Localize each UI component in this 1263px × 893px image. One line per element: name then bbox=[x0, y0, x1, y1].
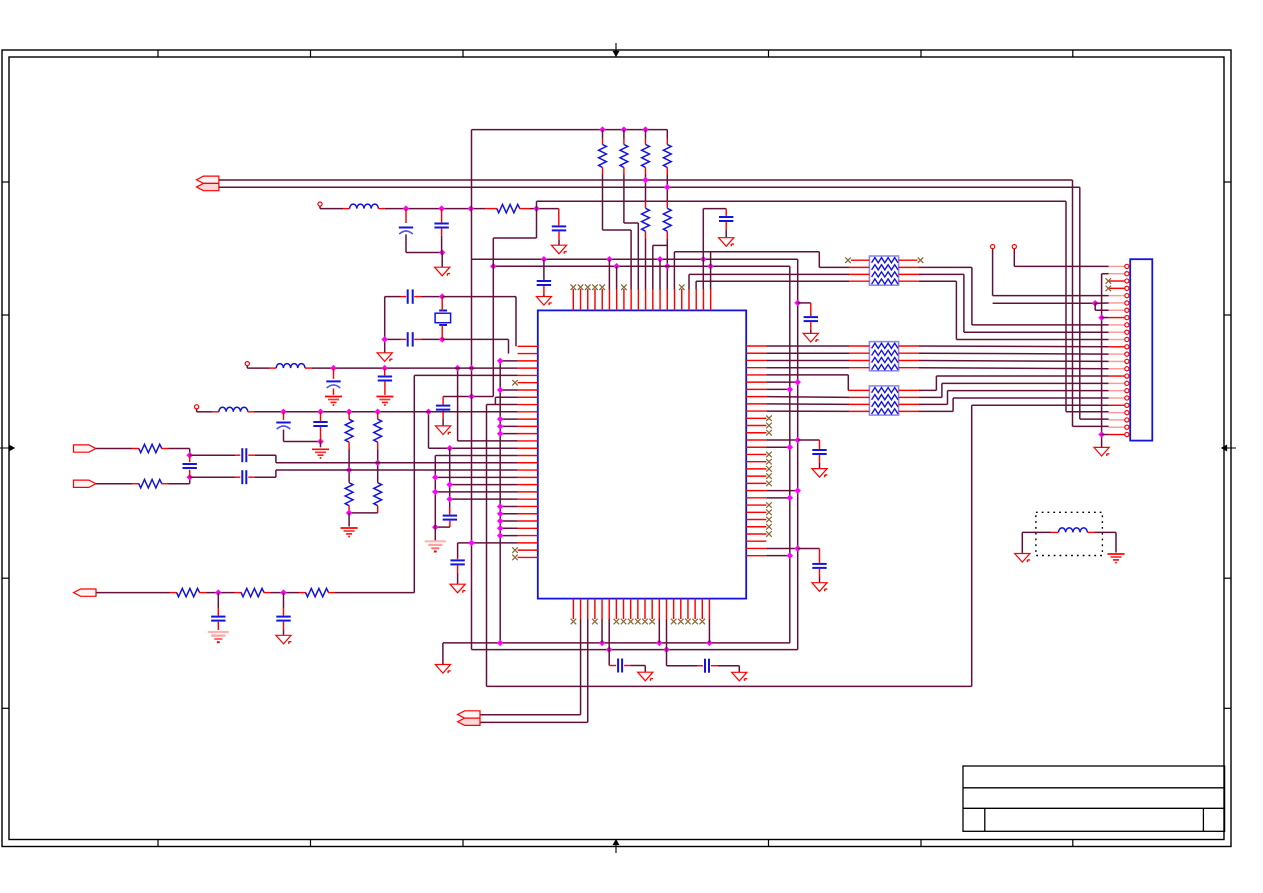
pin of R6 bbox=[645, 201, 647, 208]
wire stub up bbox=[536, 201, 538, 208]
junction bbox=[541, 256, 548, 263]
wire to port P5 bbox=[480, 714, 581, 716]
wire R5 column bbox=[666, 175, 668, 202]
junction bbox=[215, 589, 222, 596]
junction bbox=[1098, 431, 1105, 438]
pin of Y1 bbox=[441, 297, 443, 311]
IC U1 bottom pin 8 bbox=[623, 599, 625, 619]
wire stub pin k19 bbox=[450, 484, 518, 486]
junction bbox=[346, 467, 353, 474]
IC U1 top pin 12 bbox=[652, 289, 654, 310]
wire bbox=[919, 396, 942, 398]
capacitor C17 bbox=[183, 464, 197, 468]
pin of C6 bbox=[401, 296, 407, 298]
no-connect bbox=[699, 619, 705, 625]
IC U1 left pin 27 bbox=[518, 535, 538, 537]
IC U1 top pin 9 bbox=[630, 289, 632, 310]
IC U1 bottom pin 6 bbox=[608, 599, 610, 619]
junction bbox=[454, 365, 461, 372]
terminal T1 bbox=[318, 202, 322, 206]
pin FB2.4 bbox=[849, 367, 869, 369]
pin of C10 bbox=[457, 558, 459, 560]
wire net A riser down bbox=[1072, 180, 1074, 426]
pin of R4 bbox=[645, 167, 647, 174]
wire bbox=[992, 249, 994, 296]
resistor R16 bbox=[306, 588, 329, 596]
filter network FB1 bbox=[869, 256, 898, 285]
IC U1 top pin 19 bbox=[702, 289, 704, 310]
wire to IC pin bbox=[652, 245, 654, 289]
IC U1 bottom pin 3 bbox=[587, 599, 589, 619]
wire from IC pin bbox=[766, 410, 849, 412]
IC U1 left pin 12 bbox=[518, 425, 538, 427]
pin of C9 bbox=[449, 521, 451, 527]
wire bbox=[631, 665, 645, 667]
connector J1 pin 1 bbox=[1109, 265, 1125, 267]
pin of R8 bbox=[348, 412, 350, 419]
connector J1 pin 24 bbox=[1109, 434, 1125, 436]
pin of R14 bbox=[199, 592, 206, 594]
IC U1 right pin 8 bbox=[746, 396, 766, 398]
connector J1 pin 2 bbox=[1109, 273, 1125, 275]
junction bbox=[468, 393, 475, 400]
capacitor C14 bbox=[313, 422, 327, 426]
connector J1 pin 20 circle bbox=[1125, 403, 1129, 407]
wire bbox=[644, 666, 646, 673]
wire to connector bbox=[948, 390, 1109, 392]
pin of R11 bbox=[377, 506, 379, 513]
wire bbox=[810, 330, 812, 333]
wire bbox=[819, 577, 821, 583]
wire to ground bbox=[441, 253, 443, 268]
pin of C7 bbox=[414, 338, 421, 340]
IC U1 left pin 24 bbox=[518, 513, 538, 515]
connector J1 pin 5 circle bbox=[1125, 294, 1129, 298]
IC U1 right pin 28 bbox=[746, 540, 766, 542]
wire down bbox=[536, 209, 538, 238]
connector J1 pin 7 circle bbox=[1125, 308, 1129, 312]
wire vertical bbox=[449, 448, 451, 512]
IC U1 left pin 6 bbox=[518, 382, 538, 384]
capacitor C10 bbox=[450, 560, 464, 564]
junction bbox=[497, 518, 504, 525]
wire pin stub bbox=[766, 555, 789, 557]
wire bbox=[385, 338, 401, 340]
ground bbox=[376, 397, 393, 406]
pin of C19 bbox=[283, 622, 285, 630]
capacitor C6 bbox=[408, 289, 413, 303]
pin of C11 bbox=[333, 368, 335, 379]
ground bbox=[1094, 447, 1109, 456]
left center marker arrow bbox=[0, 445, 14, 450]
wire net C long bbox=[537, 200, 1067, 202]
crystal Y1 bbox=[435, 311, 451, 326]
pin of C17 bbox=[189, 470, 191, 477]
pin of C13 bbox=[283, 412, 285, 420]
junction bbox=[446, 445, 453, 452]
junction bbox=[606, 256, 613, 263]
wire bbox=[96, 448, 132, 450]
pin of R1 bbox=[519, 208, 530, 210]
wire net C riser down bbox=[1065, 201, 1067, 411]
filter network FB2 bbox=[869, 342, 898, 371]
junction bbox=[381, 365, 388, 372]
IC U1 left pin 7 bbox=[518, 389, 538, 391]
ground bbox=[803, 333, 818, 342]
wire riser to IC pin bbox=[659, 259, 661, 289]
wire riser to IC pin bbox=[710, 252, 712, 290]
wire riser to IC pin bbox=[688, 274, 690, 289]
wire bus stub to pin bbox=[500, 520, 517, 522]
connector J1 pin 12 bbox=[1109, 346, 1125, 348]
IC U1 right pin 3 bbox=[746, 359, 766, 361]
pin of R5 bbox=[666, 167, 668, 174]
connector J1 pin 1 circle bbox=[1125, 264, 1129, 268]
wire pin riser bbox=[658, 619, 660, 643]
IC U1 top pin 15 bbox=[674, 289, 676, 310]
wire row2 to IC pin k3 bbox=[312, 367, 518, 369]
wire bbox=[348, 450, 350, 483]
port P1 upper arrow bbox=[197, 176, 219, 183]
capacitor C12 bbox=[378, 377, 392, 381]
wire bbox=[406, 252, 442, 254]
connector J1 pin 18 circle bbox=[1125, 389, 1129, 393]
IC U1 top pin 11 bbox=[645, 289, 647, 310]
IC U1 bottom pin 17 bbox=[687, 599, 689, 619]
capacitor C8 bbox=[436, 406, 450, 410]
no-connect bbox=[649, 619, 655, 625]
wire bus stub to pin bbox=[500, 360, 517, 362]
wire bbox=[349, 512, 378, 514]
pin FB3.6 bbox=[899, 403, 919, 405]
IC U1 left pin 19 bbox=[518, 476, 538, 478]
wire to connector bbox=[919, 360, 1109, 363]
capacitor C22 bbox=[804, 317, 818, 321]
wire bbox=[1021, 532, 1023, 553]
wire bbox=[441, 236, 443, 253]
wire bbox=[96, 483, 132, 485]
IC U1 right pin 29 bbox=[746, 547, 766, 549]
pin of R1 bbox=[486, 208, 498, 210]
no-connect bbox=[599, 284, 605, 290]
pin of C7 bbox=[401, 338, 407, 340]
port P3 bbox=[74, 480, 96, 487]
IC U1 right pin 10 bbox=[746, 410, 766, 412]
wire pin stub bbox=[766, 547, 797, 549]
wire bbox=[283, 630, 285, 635]
wire crystal top bbox=[442, 296, 516, 298]
border zone tick bbox=[2, 314, 9, 316]
pin of R5 bbox=[666, 139, 668, 145]
capacitor C20 bbox=[618, 659, 622, 673]
junction bbox=[490, 263, 497, 270]
junction bbox=[432, 489, 439, 496]
wire to pin k4 bbox=[414, 374, 517, 376]
wire bbox=[377, 450, 379, 483]
ground bbox=[436, 426, 451, 435]
ground bbox=[812, 583, 827, 592]
wire chain to riser bbox=[335, 592, 414, 594]
pin FB3.5 bbox=[899, 410, 919, 412]
pin of R13 bbox=[132, 483, 139, 485]
pin FB3.4 bbox=[849, 410, 869, 412]
no-connect bbox=[585, 284, 591, 290]
pin of R11 bbox=[377, 481, 379, 484]
connector J1 pin 8 bbox=[1109, 317, 1125, 319]
inductor L1 bbox=[350, 204, 379, 209]
junction bbox=[794, 437, 801, 444]
pin of C16 bbox=[248, 476, 255, 478]
resistor R8 bbox=[345, 419, 353, 442]
IC U1 right pin 18 bbox=[746, 468, 766, 470]
no-connect bbox=[766, 423, 772, 429]
IC U1 right pin 9 bbox=[746, 403, 766, 405]
junction bbox=[794, 545, 801, 552]
wire net W2 bbox=[472, 649, 798, 651]
pin of C21 bbox=[697, 665, 703, 667]
junction bbox=[787, 552, 794, 559]
pin of C15 bbox=[248, 454, 255, 456]
pin of C16 bbox=[235, 476, 240, 478]
IC U1 left pin 25 bbox=[518, 520, 538, 522]
border zone tick bbox=[1224, 577, 1231, 579]
wire vertical bus bbox=[492, 238, 494, 397]
inductor L2 bbox=[276, 364, 305, 369]
wire bbox=[798, 439, 820, 441]
wire to connector pin 20 bbox=[972, 404, 1109, 406]
inductor L3 bbox=[219, 407, 248, 412]
wire pin riser bbox=[708, 619, 710, 643]
junction bbox=[446, 496, 453, 503]
connector J1 pin 19 bbox=[1109, 397, 1125, 399]
wire riser bbox=[971, 267, 973, 324]
IC U1 top pin 2 bbox=[580, 289, 582, 310]
ground bbox=[551, 245, 566, 254]
wire pin stub bbox=[766, 388, 789, 390]
ground bbox=[719, 238, 734, 247]
IC U1 right pin 11 bbox=[746, 417, 766, 419]
connector J1 pin 7 bbox=[1109, 309, 1125, 311]
border zone tick bbox=[462, 840, 464, 847]
wire to pin k13 bbox=[458, 440, 518, 442]
pin of R3 bbox=[623, 167, 625, 174]
junction bbox=[787, 444, 794, 451]
capacitor C16 bbox=[242, 470, 246, 484]
wire bbox=[422, 296, 443, 298]
wire bbox=[169, 483, 190, 485]
wire bbox=[96, 592, 170, 594]
IC U1 left pin 16 bbox=[518, 455, 538, 457]
IC U1 bottom pin 9 bbox=[630, 599, 632, 619]
IC U1 right pin 26 bbox=[746, 526, 766, 528]
wire from IC pin bbox=[766, 396, 849, 399]
pin of C24 bbox=[819, 569, 821, 577]
wire net D bbox=[472, 258, 798, 260]
no-connect bbox=[1106, 278, 1112, 284]
wire net A to connector pin 23 bbox=[1073, 425, 1109, 427]
IC U1 left pin 10 bbox=[518, 411, 538, 413]
junction bbox=[439, 249, 446, 256]
wire riser to IC pin bbox=[616, 266, 618, 289]
wire pin stub bbox=[766, 497, 789, 499]
junction bbox=[787, 386, 794, 393]
connector J1 pin 9 circle bbox=[1125, 323, 1129, 327]
wire to connector pin 5 bbox=[993, 295, 1109, 297]
no-connect bbox=[679, 284, 685, 290]
border zone tick bbox=[1224, 707, 1231, 709]
wire riser to IC pin bbox=[508, 339, 510, 353]
wire crystal left leg bbox=[384, 297, 386, 353]
wire top rail bbox=[472, 129, 668, 131]
wire to connector pin 2 bbox=[1102, 273, 1109, 275]
pin FB3.7 bbox=[899, 396, 919, 398]
wire bbox=[645, 130, 647, 139]
wire riser bbox=[935, 376, 937, 390]
IC U1 left pin 8 bbox=[518, 396, 538, 398]
pin of C12 bbox=[384, 368, 386, 375]
IC U1 right pin 27 bbox=[746, 533, 766, 535]
junction bbox=[497, 525, 504, 532]
wire from IC pin bbox=[766, 345, 849, 347]
border zone tick bbox=[2, 577, 9, 579]
IC U1 right pin 6 bbox=[746, 381, 766, 383]
no-connect bbox=[766, 459, 772, 465]
wire bbox=[348, 513, 350, 527]
junction bbox=[794, 379, 801, 386]
resistor R10 bbox=[345, 483, 353, 506]
pin of R3 bbox=[623, 139, 625, 145]
pin of R12 bbox=[132, 448, 139, 450]
connector J1 pin 6 circle bbox=[1125, 301, 1129, 305]
wire bbox=[543, 294, 545, 297]
no-connect bbox=[671, 619, 677, 625]
no-connect bbox=[621, 284, 627, 290]
IC U1 bbox=[538, 310, 746, 598]
wire pin to port bbox=[580, 619, 582, 715]
wire net B to right bbox=[219, 186, 1080, 188]
IC U1 right pin 12 bbox=[746, 425, 766, 427]
resistor R7 bbox=[663, 208, 671, 231]
ground bbox=[312, 449, 329, 458]
wire bbox=[919, 280, 956, 282]
resistor R15 bbox=[241, 588, 264, 596]
wire bbox=[666, 130, 668, 139]
pin of R2 bbox=[602, 167, 604, 174]
connector J1 pin 16 bbox=[1109, 375, 1125, 377]
polarized capacitor C1 bbox=[399, 228, 413, 235]
IC U1 left pin 20 bbox=[518, 484, 538, 486]
junction bbox=[446, 481, 453, 488]
pin FB2.5 bbox=[899, 367, 919, 369]
IC U1 left pin 1 bbox=[518, 345, 538, 347]
junction bbox=[186, 452, 193, 459]
connector J1 pin 10 bbox=[1109, 331, 1125, 333]
ground bbox=[276, 635, 291, 644]
connector J1 pin 21 circle bbox=[1125, 411, 1129, 415]
IC U1 bottom pin 15 bbox=[673, 599, 675, 619]
junction bbox=[664, 263, 671, 270]
wire pin k7 bbox=[495, 396, 517, 398]
wire riser bbox=[847, 375, 849, 390]
junction bbox=[317, 409, 324, 416]
pin of R16 bbox=[328, 592, 335, 594]
IC U1 top pin 20 bbox=[710, 289, 712, 310]
no-connect bbox=[621, 619, 627, 625]
connector J1 pin 22 circle bbox=[1125, 418, 1129, 422]
junction bbox=[664, 184, 671, 191]
ground bbox=[325, 397, 342, 406]
wire bbox=[217, 593, 219, 608]
wire to connector bbox=[919, 345, 1109, 348]
wire from IC pin bbox=[766, 367, 849, 369]
wire bus stub to pin bbox=[500, 535, 517, 537]
pin of L3 bbox=[212, 411, 219, 413]
IC U1 bottom pin 10 bbox=[637, 599, 639, 619]
pin FB3.1 bbox=[849, 389, 869, 391]
junction bbox=[497, 510, 504, 517]
pin of R7 bbox=[666, 231, 668, 238]
wire bbox=[246, 366, 248, 368]
wire pin riser bbox=[608, 619, 610, 666]
pin FB2.3 bbox=[849, 360, 869, 362]
wire bbox=[206, 592, 235, 594]
wire bus stub to pin bbox=[500, 527, 517, 529]
IC U1 left pin 22 bbox=[518, 498, 538, 500]
wire bbox=[919, 266, 972, 268]
IC U1 right pin 13 bbox=[746, 432, 766, 434]
wire to connector bbox=[942, 382, 1109, 384]
pin of R15 bbox=[264, 592, 271, 594]
wire bbox=[543, 259, 545, 280]
IC U1 bottom pin 11 bbox=[644, 599, 646, 619]
capacitor C9 bbox=[443, 516, 457, 520]
connector J1 pin 18 bbox=[1109, 390, 1125, 392]
junction bbox=[606, 646, 613, 653]
border zone tick bbox=[310, 50, 312, 57]
IC U1 left pin 23 bbox=[518, 505, 538, 507]
polarized capacitor C13 bbox=[276, 423, 290, 430]
filter network FB3 bbox=[869, 386, 898, 415]
connector J1 pin 20 bbox=[1109, 404, 1125, 406]
pin of R9 bbox=[377, 412, 379, 419]
capacitor C19 bbox=[276, 617, 290, 621]
pin of C20 bbox=[609, 665, 616, 667]
junction bbox=[497, 423, 504, 430]
no-connect bbox=[766, 481, 772, 487]
pin of C8 bbox=[442, 411, 444, 419]
pin of R12 bbox=[161, 448, 168, 450]
pin FB1.3 bbox=[849, 273, 869, 275]
wire vertical bbox=[457, 368, 459, 441]
wire pin stub bbox=[766, 439, 797, 441]
junction bbox=[642, 177, 649, 184]
wire pin stub bbox=[766, 490, 797, 492]
IC U1 right pin 5 bbox=[746, 374, 766, 376]
IC U1 top pin 5 bbox=[601, 289, 603, 310]
connector J1 pin 23 circle bbox=[1125, 425, 1129, 429]
terminal T4 bbox=[991, 245, 995, 249]
junction bbox=[317, 438, 324, 445]
wire riser bbox=[941, 383, 943, 397]
top center marker arrow bbox=[613, 43, 618, 56]
wire to IC pin bbox=[666, 238, 668, 289]
no-connect bbox=[766, 430, 772, 436]
wire ground bus vertical bbox=[499, 361, 501, 643]
wire bbox=[197, 411, 212, 413]
wire to connector bbox=[919, 352, 1109, 355]
wire row1 bbox=[385, 208, 486, 210]
pin of C3 bbox=[558, 209, 560, 226]
